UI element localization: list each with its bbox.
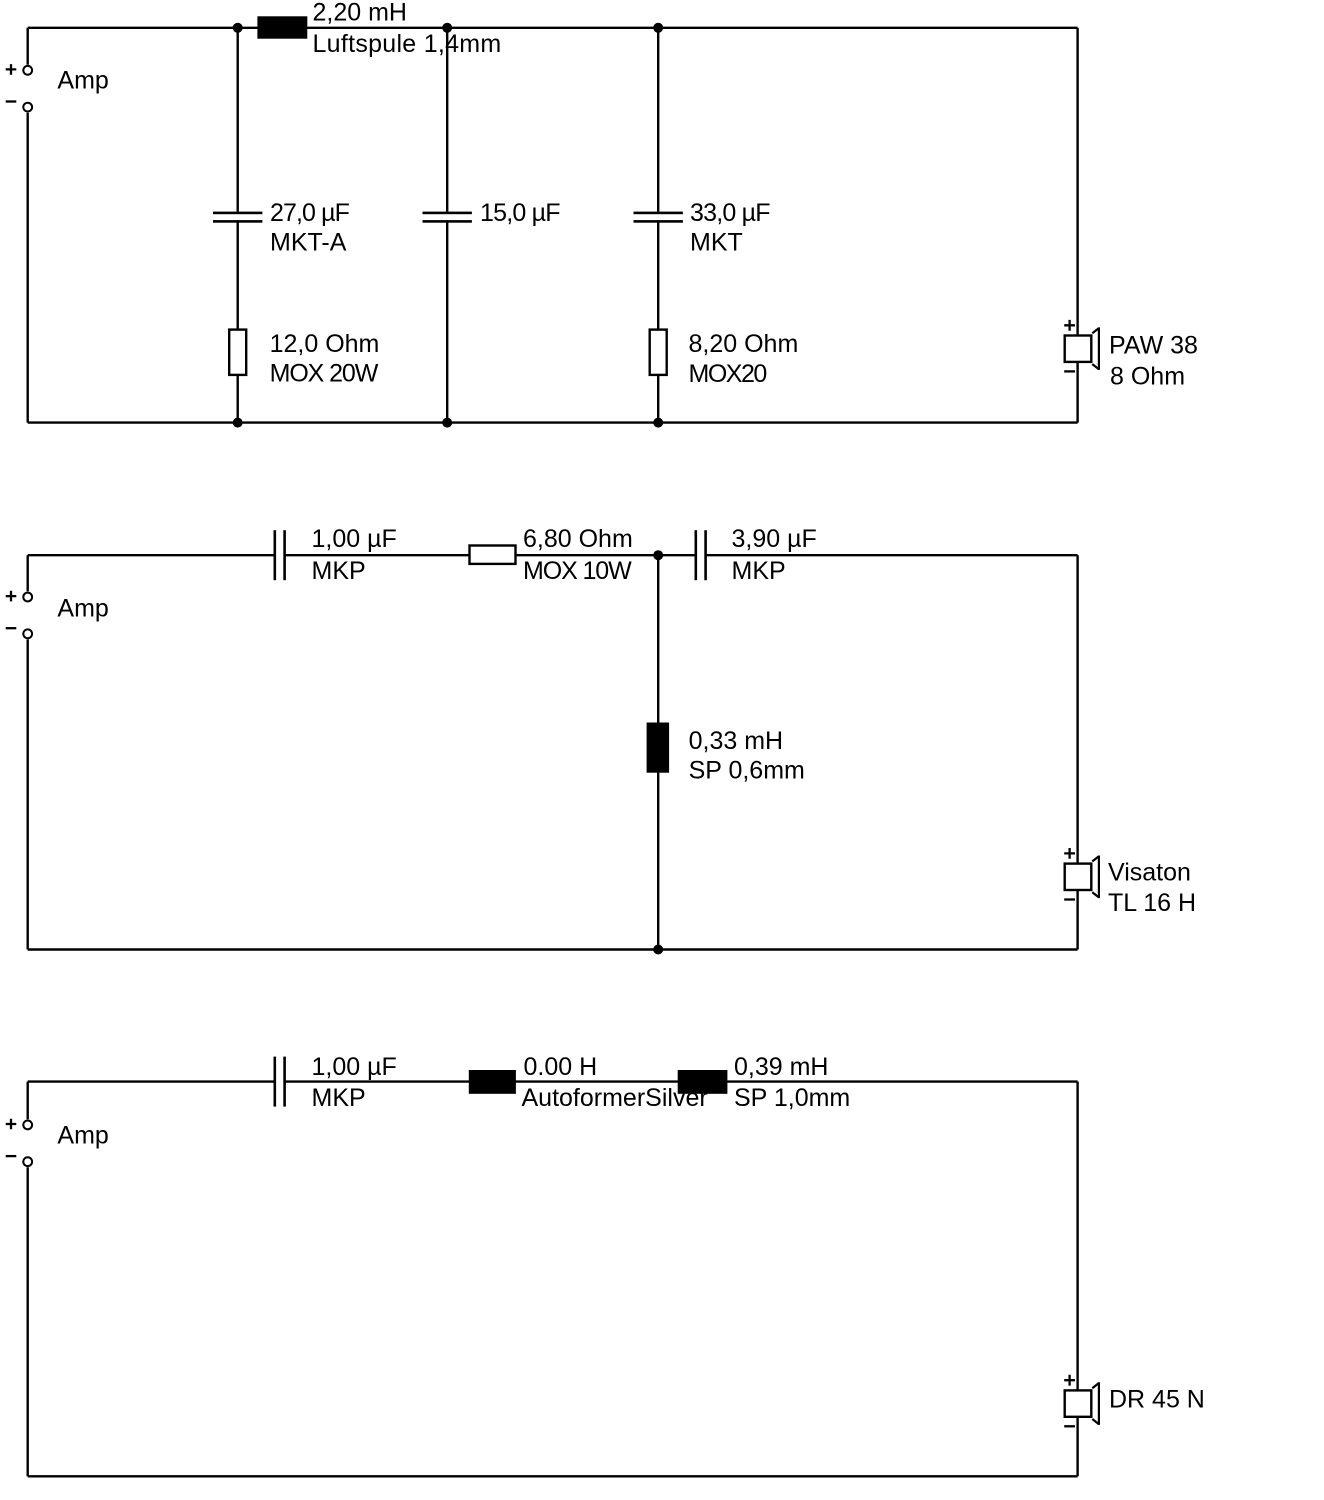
- svg-text:6,80 Ohm: 6,80 Ohm: [523, 525, 633, 553]
- svg-text:Amp: Amp: [57, 1121, 108, 1149]
- svg-text:3,90 µF: 3,90 µF: [732, 525, 817, 553]
- svg-text:DR 45 N: DR 45 N: [1109, 1385, 1205, 1413]
- svg-text:MOX 20W: MOX 20W: [270, 359, 379, 387]
- svg-text:12,0 Ohm: 12,0 Ohm: [270, 330, 380, 358]
- svg-text:27,0 µF: 27,0 µF: [270, 199, 350, 227]
- svg-text:MOX 10W: MOX 10W: [523, 557, 632, 585]
- svg-text:MKT: MKT: [690, 228, 743, 256]
- svg-text:1,00 µF: 1,00 µF: [312, 1053, 397, 1081]
- svg-text:Luftspule 1,4mm: Luftspule 1,4mm: [313, 30, 502, 58]
- svg-text:PAW 38: PAW 38: [1109, 331, 1198, 359]
- svg-text:Visaton: Visaton: [1108, 858, 1191, 886]
- svg-text:Amp: Amp: [57, 66, 108, 94]
- svg-text:0,39 mH: 0,39 mH: [734, 1053, 828, 1081]
- svg-text:SP 1,0mm: SP 1,0mm: [734, 1084, 850, 1112]
- svg-text:2,20 mH: 2,20 mH: [313, 0, 407, 27]
- svg-text:15,0 µF: 15,0 µF: [480, 199, 560, 227]
- svg-text:MOX20: MOX20: [689, 360, 767, 388]
- svg-text:8 Ohm: 8 Ohm: [1110, 362, 1185, 390]
- svg-text:33,0 µF: 33,0 µF: [690, 199, 770, 227]
- svg-text:0,33 mH: 0,33 mH: [689, 727, 783, 755]
- svg-text:MKP: MKP: [312, 1084, 366, 1112]
- svg-text:8,20 Ohm: 8,20 Ohm: [689, 330, 799, 358]
- svg-text:TL 16 H: TL 16 H: [1108, 889, 1196, 917]
- svg-text:MKT-A: MKT-A: [270, 228, 347, 256]
- svg-text:SP 0,6mm: SP 0,6mm: [689, 757, 805, 785]
- svg-text:0.00 H: 0.00 H: [524, 1053, 598, 1081]
- svg-text:MKP: MKP: [732, 557, 786, 585]
- svg-text:1,00 µF: 1,00 µF: [312, 525, 397, 553]
- svg-text:MKP: MKP: [312, 557, 366, 585]
- svg-text:Amp: Amp: [57, 594, 108, 622]
